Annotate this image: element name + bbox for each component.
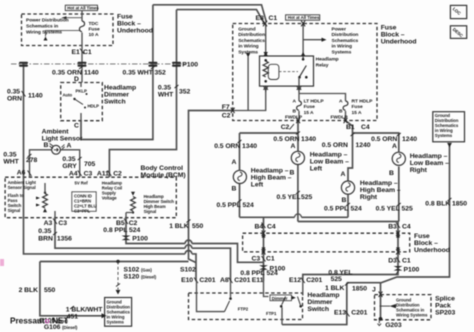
svg-text:525: 525: [301, 194, 312, 201]
svg-text:C1: C1: [269, 15, 278, 22]
svg-text:S120 (Diesel): S120 (Diesel): [124, 274, 157, 281]
svg-text:WHT: WHT: [3, 159, 19, 166]
svg-text:PKLP: PKLP: [76, 89, 87, 94]
svg-text:A: A: [392, 143, 397, 150]
svg-text:C2: C2: [129, 220, 138, 227]
svg-text:524: 524: [243, 202, 254, 209]
svg-text:0.5 YEL: 0.5 YEL: [277, 194, 301, 201]
svg-text:D: D: [74, 76, 79, 83]
svg-text:B: B: [389, 170, 394, 177]
svg-text:352: 352: [155, 70, 166, 77]
svg-text:Splice: Splice: [435, 296, 455, 303]
svg-text:0.8 PPL: 0.8 PPL: [103, 227, 127, 234]
svg-text:A: A: [67, 143, 72, 150]
svg-text:B: B: [44, 142, 49, 149]
svg-text:WHT: WHT: [158, 92, 174, 99]
svg-text:Headlamp –: Headlamp –: [360, 180, 398, 187]
svg-text:ORN: ORN: [7, 96, 22, 103]
svg-text:Systems: Systems: [332, 49, 352, 55]
svg-text:RT HDLP: RT HDLP: [352, 99, 374, 105]
svg-text:524: 524: [267, 270, 278, 277]
svg-text:451: 451: [67, 314, 78, 321]
svg-text:1850: 1850: [452, 201, 467, 208]
svg-text:Low Beam –: Low Beam –: [310, 159, 349, 166]
svg-text:C201: C201: [234, 277, 250, 284]
svg-text:A4: A4: [69, 171, 78, 178]
svg-text:D3: D3: [388, 258, 397, 265]
svg-text:C: C: [74, 123, 79, 130]
svg-text:Ambient: Ambient: [42, 129, 70, 136]
svg-text:A11: A11: [97, 171, 109, 178]
svg-text:1240: 1240: [402, 136, 417, 143]
svg-text:Dimmer: Dimmer: [272, 296, 288, 301]
svg-text:J: J: [372, 287, 376, 294]
svg-text:Left: Left: [310, 166, 323, 173]
svg-text:C3=PPL: C3=PPL: [74, 209, 90, 214]
svg-text:Signal: Signal: [8, 208, 21, 213]
svg-text:Hot at All Times: Hot at All Times: [67, 6, 99, 11]
svg-text:Power Distribution: Power Distribution: [26, 18, 69, 24]
svg-text:1340: 1340: [242, 143, 257, 150]
svg-text:1140: 1140: [84, 70, 99, 77]
svg-text:C201: C201: [306, 277, 322, 284]
svg-text:0.35: 0.35: [38, 228, 51, 235]
svg-text:1140: 1140: [28, 93, 43, 100]
svg-text:Fuse: Fuse: [352, 104, 364, 110]
svg-text:0.5 ORN: 0.5 ORN: [371, 136, 397, 143]
svg-text:Block –: Block –: [414, 240, 438, 247]
svg-text:A: A: [341, 171, 346, 178]
svg-text:Distribution: Distribution: [238, 32, 265, 38]
svg-text:Distribution: Distribution: [332, 32, 359, 38]
svg-text:S102: S102: [180, 267, 196, 274]
svg-text:E8: E8: [256, 15, 264, 22]
svg-text:C2: C2: [222, 113, 231, 120]
svg-text:C4: C4: [267, 224, 276, 231]
svg-text:5V Ref: 5V Ref: [75, 181, 89, 186]
svg-text:B: B: [342, 197, 347, 204]
svg-text:Power: Power: [332, 27, 347, 33]
svg-text:Underhood: Underhood: [117, 28, 153, 35]
svg-text:B5: B5: [116, 220, 125, 227]
svg-text:Low Beam –: Low Beam –: [410, 160, 449, 167]
svg-text:Right: Right: [410, 167, 428, 174]
svg-text:E13: E13: [334, 310, 346, 317]
svg-text:524: 524: [351, 206, 362, 213]
svg-text:Relay: Relay: [316, 63, 329, 69]
svg-text:Sensor Signal: Sensor Signal: [8, 185, 36, 190]
svg-text:Underhood: Underhood: [414, 247, 450, 254]
svg-text:C201: C201: [351, 310, 367, 317]
svg-text:FWDLP: FWDLP: [285, 115, 303, 121]
svg-text:Schematics: Schematics: [238, 38, 265, 44]
svg-text:F7: F7: [222, 104, 230, 111]
svg-text:C4: C4: [361, 124, 370, 131]
svg-text:1 BLK: 1 BLK: [169, 223, 189, 230]
svg-text:Underhood: Underhood: [381, 39, 417, 46]
svg-text:Body Control: Body Control: [141, 165, 184, 172]
svg-text:Headlamp: Headlamp: [316, 57, 339, 63]
svg-text:Block –: Block –: [117, 21, 141, 28]
svg-text:LT HDLP: LT HDLP: [304, 99, 325, 105]
svg-text:1356: 1356: [57, 236, 72, 243]
svg-text:Wiring Systems: Wiring Systems: [396, 313, 428, 318]
svg-text:C1: C1: [83, 49, 92, 56]
svg-text:Schematics in: Schematics in: [26, 24, 58, 30]
svg-text:Systems: Systems: [107, 320, 125, 325]
svg-text:0.5 ORN: 0.5 ORN: [214, 143, 240, 150]
svg-text:E1: E1: [72, 49, 80, 56]
svg-text:Fuse: Fuse: [304, 104, 316, 110]
svg-text:10 A: 10 A: [89, 32, 99, 38]
svg-text:525: 525: [331, 276, 342, 283]
svg-text:A3: A3: [44, 220, 53, 227]
svg-text:Ground: Ground: [238, 27, 255, 33]
svg-text:P100: P100: [132, 236, 148, 243]
svg-text:A: A: [232, 159, 237, 166]
svg-text:Headlamp: Headlamp: [307, 292, 339, 299]
svg-text:0.5 PPL: 0.5 PPL: [324, 206, 348, 213]
svg-text:Systems: Systems: [435, 133, 453, 138]
svg-text:C3: C3: [84, 171, 93, 178]
svg-text:E10: E10: [181, 277, 193, 284]
svg-text:Right: Right: [360, 194, 378, 201]
svg-text:C3: C3: [252, 256, 261, 263]
svg-text:B: B: [232, 186, 237, 193]
svg-text:Module (BCM): Module (BCM): [141, 172, 186, 179]
svg-text:1 BLK/WHT: 1 BLK/WHT: [66, 307, 103, 314]
svg-text:A: A: [291, 143, 296, 150]
svg-text:Fuse: Fuse: [414, 233, 430, 240]
svg-text:Fuse: Fuse: [117, 14, 133, 21]
svg-text:1 BLK: 1 BLK: [325, 285, 345, 292]
svg-text:Hot at All Times: Hot at All Times: [288, 15, 320, 20]
svg-text:0.8 PPL: 0.8 PPL: [240, 270, 264, 277]
svg-text:E12: E12: [289, 277, 301, 284]
svg-text:0.5 YEL: 0.5 YEL: [376, 206, 400, 213]
svg-text:705: 705: [84, 161, 95, 168]
svg-text:Voltage: Voltage: [102, 196, 118, 201]
svg-text:Headlamp –: Headlamp –: [251, 168, 289, 175]
svg-text:1850: 1850: [352, 286, 367, 293]
svg-text:Pack: Pack: [435, 303, 451, 310]
svg-text:SP203: SP203: [435, 310, 455, 317]
svg-text:Fuse: Fuse: [381, 25, 397, 32]
svg-text:Headlamp –: Headlamp –: [410, 153, 448, 160]
svg-text:G203: G203: [385, 322, 402, 329]
svg-text:524: 524: [129, 227, 140, 234]
svg-text:0.35: 0.35: [3, 152, 16, 159]
svg-text:1240: 1240: [356, 142, 371, 149]
svg-text:P100: P100: [404, 267, 420, 274]
svg-text:278: 278: [26, 157, 37, 164]
svg-text:0.5 PPL: 0.5 PPL: [217, 202, 241, 209]
svg-text:FWDLP: FWDLP: [331, 115, 349, 121]
svg-text:in Wiring: in Wiring: [332, 44, 352, 50]
svg-text:Switch: Switch: [307, 306, 329, 313]
svg-text:0.5 ORN: 0.5 ORN: [322, 142, 348, 149]
svg-text:0.35: 0.35: [62, 156, 75, 163]
svg-text:TDC: TDC: [89, 21, 99, 27]
svg-text:S102 (Gas): S102 (Gas): [124, 267, 153, 274]
svg-text:550: 550: [192, 223, 203, 230]
svg-text:Headlamp: Headlamp: [104, 85, 136, 92]
svg-text:525: 525: [402, 206, 413, 213]
svg-text:A8: A8: [220, 277, 229, 284]
svg-text:Block –: Block –: [381, 32, 405, 39]
svg-text:C4: C4: [402, 224, 411, 231]
svg-text:B: B: [339, 109, 343, 115]
svg-text:Wiring Systems: Wiring Systems: [26, 30, 62, 36]
svg-text:B3: B3: [388, 224, 397, 231]
svg-text:FTP2: FTP2: [238, 307, 249, 312]
svg-text:1340: 1340: [301, 136, 316, 143]
svg-text:Fuse: Fuse: [89, 27, 101, 33]
svg-text:0.5 ORN: 0.5 ORN: [273, 136, 299, 143]
svg-text:GRY: GRY: [62, 163, 77, 170]
svg-text:15 A: 15 A: [352, 110, 362, 116]
svg-text:Systems: Systems: [238, 49, 258, 55]
svg-text:Dimmer: Dimmer: [307, 299, 332, 306]
svg-text:0.8 BLK: 0.8 BLK: [425, 201, 450, 208]
svg-text:C2: C2: [113, 171, 122, 178]
svg-text:550: 550: [44, 287, 55, 294]
svg-text:0.35 WHT: 0.35 WHT: [123, 70, 154, 77]
svg-text:Dimmer: Dimmer: [104, 92, 129, 99]
svg-text:B1: B1: [346, 124, 355, 131]
svg-text:A6: A6: [17, 170, 26, 177]
svg-text:B4: B4: [255, 224, 264, 231]
svg-text:BRN: BRN: [38, 236, 53, 243]
svg-text:352: 352: [179, 89, 190, 96]
svg-text:Switch: Switch: [104, 99, 126, 106]
svg-text:A: A: [339, 98, 343, 104]
svg-text:C201: C201: [199, 277, 215, 284]
svg-text:Schematics: Schematics: [332, 38, 359, 44]
svg-text:A: A: [293, 98, 297, 104]
svg-text:15 A: 15 A: [304, 110, 314, 116]
svg-text:in Wiring: in Wiring: [238, 44, 258, 50]
svg-text:E11: E11: [252, 277, 264, 284]
svg-text:Pressauto.NET: Pressauto.NET: [10, 316, 68, 326]
svg-text:0.35: 0.35: [158, 85, 171, 92]
svg-text:High Beam –: High Beam –: [251, 175, 292, 182]
svg-text:Headlamp –: Headlamp –: [310, 152, 348, 159]
svg-text:P100: P100: [182, 62, 198, 69]
svg-text:C2: C2: [281, 124, 290, 131]
svg-text:C3: C3: [58, 220, 67, 227]
svg-text:C1: C1: [266, 256, 275, 263]
svg-text:High Beam –: High Beam –: [360, 187, 401, 194]
svg-text:C1: C1: [402, 258, 411, 265]
svg-text:Auto: Auto: [63, 93, 73, 98]
svg-text:0.35: 0.35: [7, 89, 20, 96]
svg-text:Left: Left: [251, 182, 264, 189]
svg-text:FTP1: FTP1: [266, 311, 277, 316]
svg-text:2 BLK: 2 BLK: [19, 287, 39, 294]
svg-text:Signal: Signal: [144, 209, 157, 214]
svg-text:B: B: [293, 109, 297, 115]
svg-text:HDLP: HDLP: [88, 104, 100, 109]
